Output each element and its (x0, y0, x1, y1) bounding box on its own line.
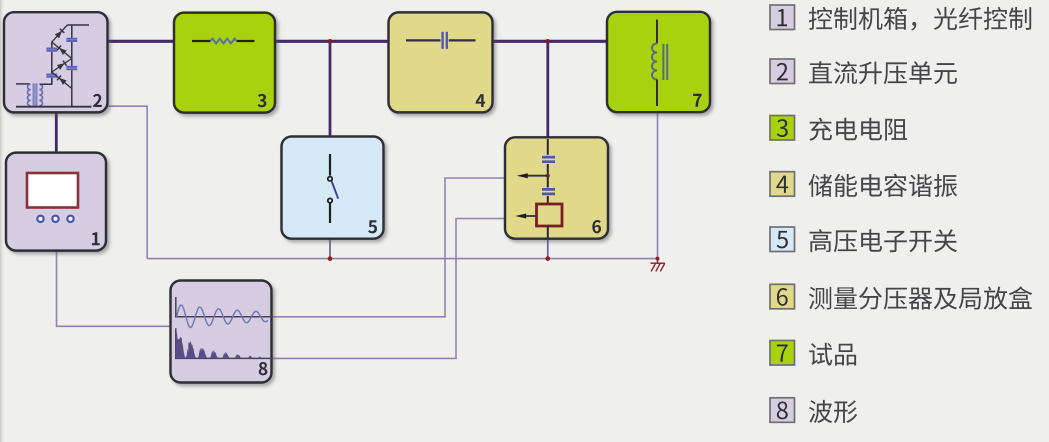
wire: bottom ground bus (147, 258, 658, 260)
box 2 DC boost unit (4, 12, 108, 112)
legend square 8 (770, 398, 795, 423)
junction node: ground bus / box5 (328, 256, 333, 261)
wire: top HV bus box3 to box4 (273, 40, 391, 43)
legend square 6 (770, 284, 795, 309)
diode D2 (57, 46, 67, 56)
label 1 (92, 232, 100, 245)
ground symbol (657, 259, 659, 264)
divider column lead to PD box (547, 196, 549, 204)
junction node: ground bus / box7 (656, 257, 660, 261)
capacitor C3 (left rail upper) (46, 49, 57, 51)
box 4 storage capacitor (389, 12, 493, 112)
arrow PD box to output (524, 215, 537, 217)
box 6 measuring divider and PD box (505, 137, 608, 238)
legend text 1 (809, 7, 1031, 31)
legend text 7 (809, 343, 856, 366)
damped sine waveform (177, 305, 268, 328)
wire: box6 lower tap to box8 bottom trace (272, 219, 505, 359)
wire: drop from top bus to divider box6 (546, 41, 549, 139)
capacitor C2 (right rail lower) (66, 67, 77, 69)
junction node: top bus / box6 drop (546, 39, 551, 44)
capacitor C4 (left rail lower) (46, 75, 57, 77)
junction node: top bus / box5 drop (328, 39, 333, 44)
wire: box6 bottom lead to ground bus (547, 238, 549, 259)
junction node tap1 (546, 174, 550, 178)
legend text 6 (809, 286, 1032, 309)
legend text 5 (809, 229, 957, 252)
label 4 (476, 94, 485, 107)
diode D1 (55, 29, 65, 39)
box 7 test object (607, 12, 710, 112)
switch S bottom lead (329, 204, 331, 224)
capacitor C plates (443, 32, 447, 49)
transformer T1 secondary winding (39, 84, 42, 105)
legend text 8 (809, 400, 857, 423)
switch S top contact (328, 177, 332, 181)
control box screen (27, 173, 78, 208)
transformer T1 core (33, 83, 37, 107)
inductor core bars (663, 44, 667, 80)
legend square 3 (770, 116, 795, 141)
switch S bottom contact (328, 198, 332, 202)
box 5 HV electronic switch (282, 137, 384, 239)
divider capacitor CD2 (542, 189, 555, 194)
box 3 charging resistor (174, 13, 275, 113)
test object winding lead top (656, 20, 658, 44)
wire: top HV bus box4 to box7 (490, 40, 609, 43)
switch S top lead (329, 154, 331, 176)
legend text 2 (809, 61, 957, 84)
wire: top HV bus box2 to box3 (105, 40, 176, 43)
box2 diode chain zigzag wire (52, 25, 72, 89)
waveform bottom plot vertical axis (175, 328, 177, 359)
diode D4 (57, 76, 67, 86)
resistor R leads (192, 40, 255, 42)
label 5 (368, 220, 377, 233)
box 1 control cabinet (6, 153, 106, 251)
legend square 2 (770, 59, 795, 84)
resistor R zigzag (211, 38, 237, 43)
label 2 (93, 94, 102, 107)
divider column bottom lead (547, 226, 549, 238)
divider column middle lead (547, 164, 549, 174)
wire: drop from top bus to switch box5 (329, 41, 332, 138)
label 8 (259, 362, 268, 375)
legend square 5 (770, 227, 795, 252)
box2 bottom return rail (16, 106, 92, 108)
control box button 3 (67, 216, 73, 222)
waveform top plot horizontal axis (175, 316, 272, 318)
wire: box5 bottom lead to ground bus (329, 238, 331, 259)
transformer T1 primary winding (28, 84, 31, 105)
control box button 1 (37, 216, 43, 222)
label 7 (693, 94, 702, 107)
inductor L coil (652, 44, 657, 80)
switch S blade (332, 181, 339, 198)
control box button 2 (52, 216, 58, 222)
divider capacitor CD1 (542, 157, 555, 162)
label 3 (258, 94, 267, 107)
label 6 (592, 220, 601, 233)
wire: box2 right to ground bus corner (105, 106, 147, 258)
legend text 3 (809, 118, 907, 141)
junction node: ground bus / box6 (545, 256, 550, 261)
decaying spectrum waveform (176, 329, 267, 359)
transformer T1 primary lead (16, 83, 30, 85)
divider column upper lead (547, 139, 549, 155)
waveform top plot vertical axis (175, 297, 177, 318)
box2 left capacitor rail (51, 42, 53, 84)
test object winding lead bottom (656, 80, 658, 107)
wire: box1 bottom to box8 left (57, 250, 172, 326)
box2 output line (67, 24, 89, 26)
PD measuring box rectangle (537, 204, 563, 226)
waveform bottom plot horizontal axis (175, 357, 272, 359)
legend square 4 (770, 172, 795, 197)
legend text 4 (809, 174, 958, 197)
arrow tap1 to measurement output (527, 175, 548, 177)
diode D3 (57, 61, 67, 70)
divider column lead below tap1 (547, 178, 549, 188)
transformer T1 secondary lead up to rail (40, 78, 52, 84)
legend square 7 (770, 341, 795, 366)
wire: box6 upper tap to box8 top trace (272, 178, 505, 317)
wire: box7 bottom lead to ground (657, 112, 659, 259)
capacitor C1 (right rail upper) (66, 39, 77, 41)
legend square 1 (770, 5, 795, 30)
wire: box2 to control box1 (55, 110, 58, 154)
box 8 waveforms (171, 281, 272, 383)
box2 right capacitor rail (71, 25, 73, 107)
capacitor C leads (406, 39, 476, 41)
